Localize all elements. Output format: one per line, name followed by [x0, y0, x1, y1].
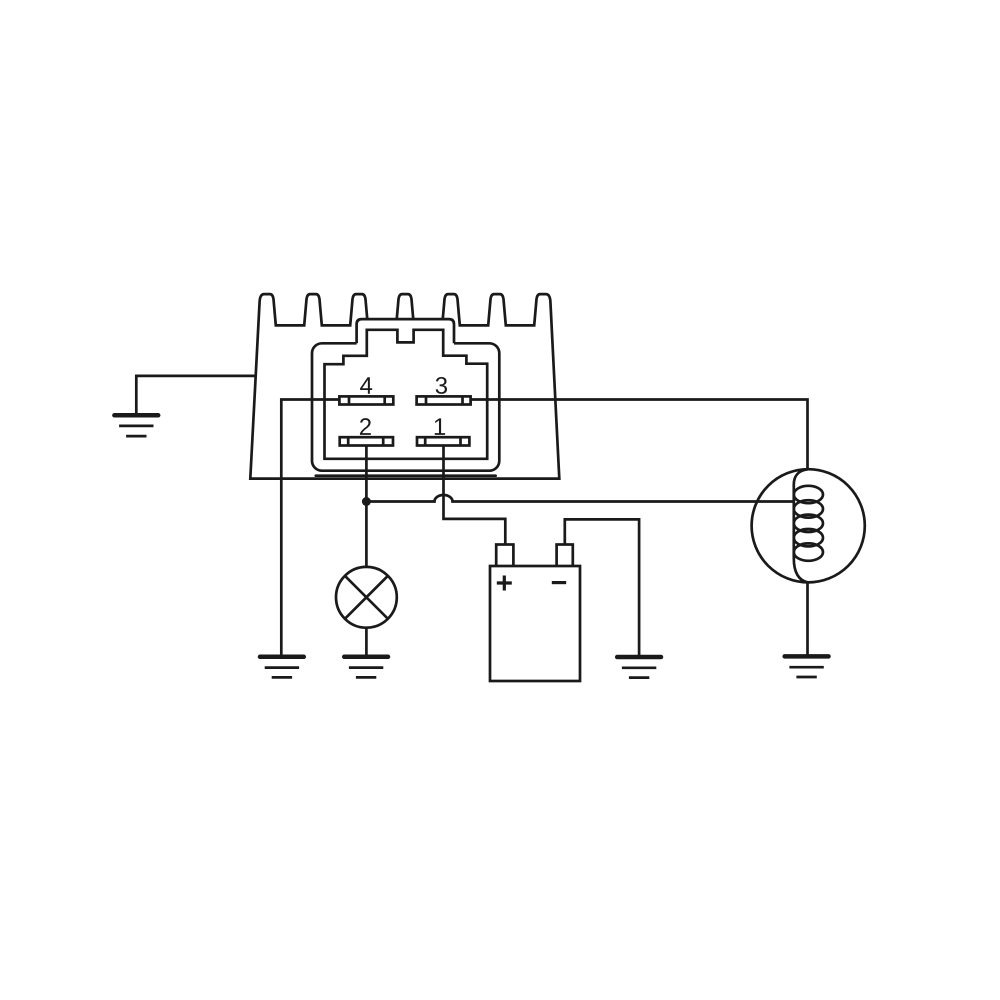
pin 4 label	[360, 377, 372, 394]
lamp L1 (indicator bulb)	[336, 567, 397, 628]
pin 2 label	[360, 418, 371, 435]
battery - terminal	[557, 545, 573, 568]
pin 3 label	[436, 377, 447, 394]
battery - label	[552, 581, 566, 584]
wire: alternator to ground G5	[806, 582, 809, 655]
wire: pin 3 to alternator	[471, 400, 808, 471]
pin 3	[417, 396, 471, 404]
wire: chassis ground to regulator case	[136, 376, 256, 414]
node junction dot	[362, 497, 371, 506]
ground G4 (battery ground)	[617, 657, 661, 678]
ground G3 (lamp ground)	[344, 657, 388, 678]
ground G1 (regulator case ground)	[114, 415, 158, 436]
battery BT1 body	[490, 566, 580, 681]
pin 4	[339, 396, 393, 404]
wire: junction bus to alternator coil with hop over pin1 wire	[366, 495, 793, 502]
regulator U1 heatsink body with fins	[250, 294, 559, 479]
wire: pin 2 down through junction to lamp	[365, 446, 368, 568]
ground G2 (pin 4 ground)	[260, 657, 304, 678]
connector inner stepped profile with key notch	[325, 330, 488, 459]
pin 1	[417, 437, 469, 445]
connector tower (raised key housing on top of shell)	[357, 319, 454, 345]
battery + terminal	[496, 545, 513, 568]
pin 2	[340, 437, 393, 445]
pin 1 label	[435, 418, 445, 435]
alternator coil winding	[794, 469, 823, 582]
alternator G (stator coil) circle	[752, 469, 865, 582]
wire: pin 1 to battery positive	[444, 446, 506, 545]
ground G5 (alternator ground)	[785, 656, 829, 677]
connector shell (outer rounded rectangle, top edge open under tower)	[312, 343, 499, 470]
wire: lamp to ground G3	[365, 628, 368, 655]
connector shell base line	[316, 474, 496, 477]
wire: pin 4 to ground G2	[281, 400, 339, 656]
wire: battery negative to ground G4	[565, 519, 639, 655]
battery + label	[497, 576, 512, 591]
